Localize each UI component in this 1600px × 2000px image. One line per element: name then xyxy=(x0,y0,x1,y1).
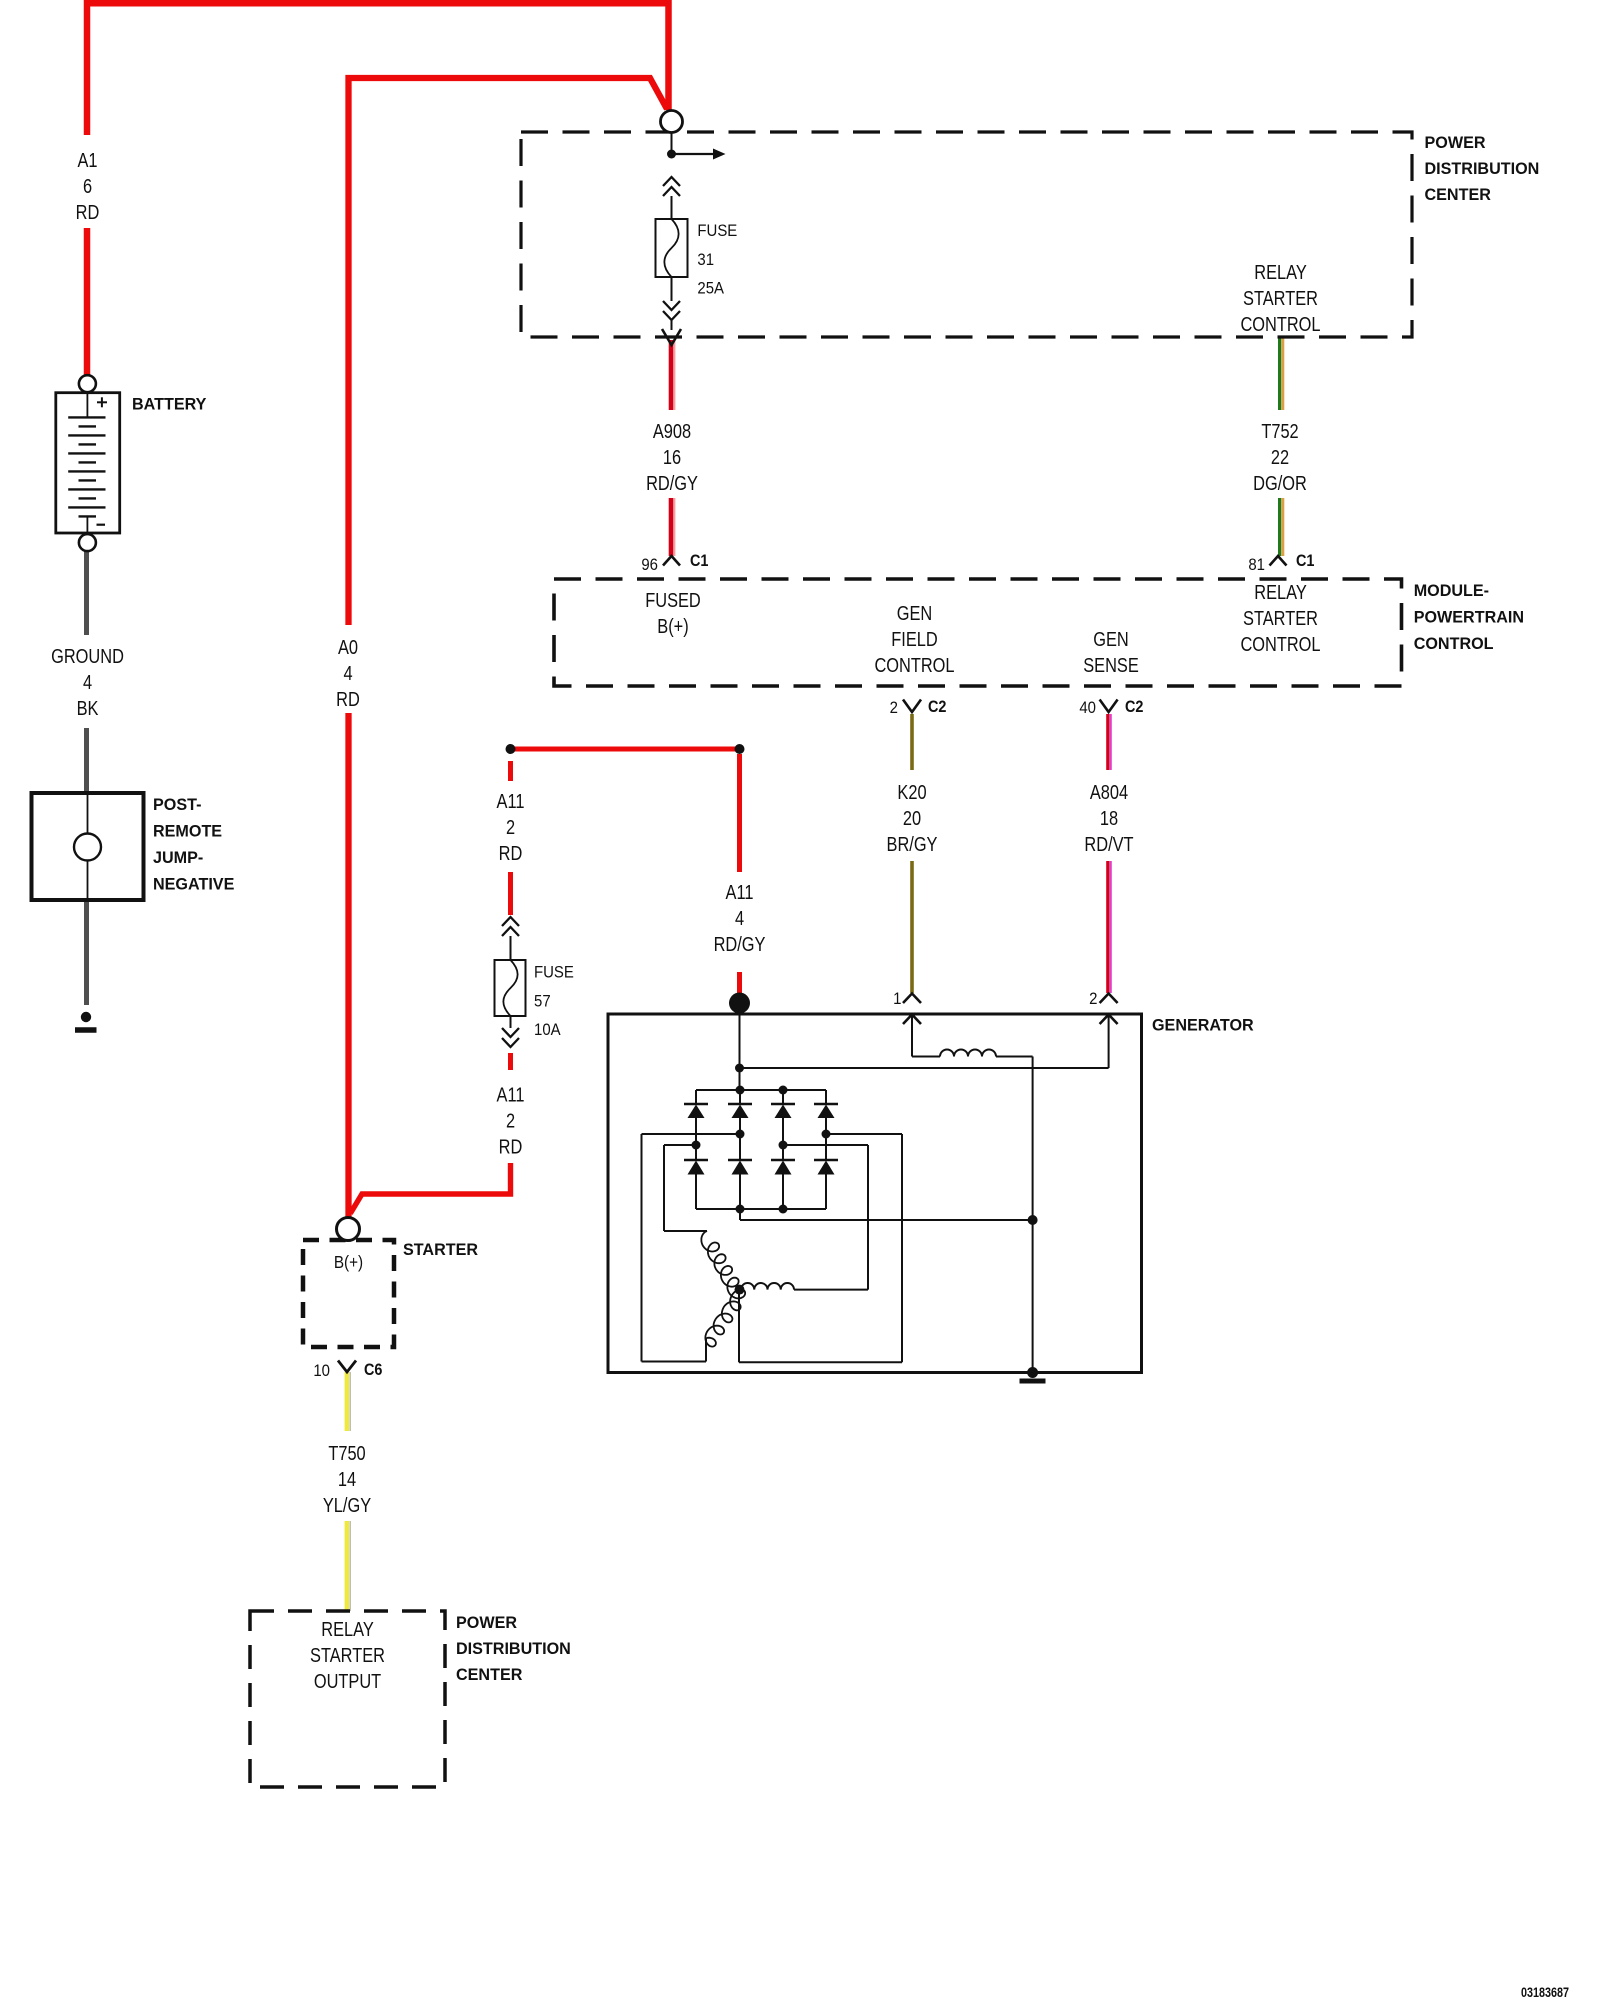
svg-text:2: 2 xyxy=(1089,990,1097,1008)
svg-text:GENERATOR: GENERATOR xyxy=(1152,1015,1254,1034)
svg-text:POWERTRAIN: POWERTRAIN xyxy=(1414,607,1524,626)
svg-text:DISTRIBUTION: DISTRIBUTION xyxy=(1425,159,1540,178)
svg-text:FIELD: FIELD xyxy=(891,627,937,650)
svg-text:RELAY: RELAY xyxy=(1254,580,1307,603)
svg-text:SENSE: SENSE xyxy=(1083,653,1139,676)
svg-text:A11: A11 xyxy=(726,880,754,903)
svg-text:57: 57 xyxy=(534,993,551,1011)
svg-text:RD: RD xyxy=(499,1135,523,1158)
svg-text:GEN: GEN xyxy=(897,601,933,624)
svg-text:DISTRIBUTION: DISTRIBUTION xyxy=(456,1639,571,1658)
svg-text:GROUND: GROUND xyxy=(51,644,124,667)
svg-text:03183687: 03183687 xyxy=(1521,1985,1569,2000)
svg-text:RD/VT: RD/VT xyxy=(1084,832,1133,855)
svg-text:MODULE-: MODULE- xyxy=(1414,581,1489,600)
svg-text:6: 6 xyxy=(83,174,92,197)
svg-text:31: 31 xyxy=(697,251,714,269)
svg-text:C1: C1 xyxy=(690,552,709,570)
svg-text:CONTROL: CONTROL xyxy=(1240,312,1320,335)
svg-text:RD: RD xyxy=(336,687,360,710)
svg-text:CONTROL: CONTROL xyxy=(874,653,954,676)
svg-text:10: 10 xyxy=(313,1362,330,1380)
svg-text:2: 2 xyxy=(506,815,515,838)
svg-text:POWER: POWER xyxy=(1425,133,1486,152)
svg-text:YL/GY: YL/GY xyxy=(323,1493,371,1516)
svg-text:BATTERY: BATTERY xyxy=(132,394,206,413)
svg-text:C1: C1 xyxy=(1296,552,1315,570)
svg-text:2: 2 xyxy=(506,1109,515,1132)
svg-text:B(+): B(+) xyxy=(334,1252,363,1272)
svg-text:C2: C2 xyxy=(928,698,947,716)
svg-text:STARTER: STARTER xyxy=(1243,286,1318,309)
svg-text:CONTROL: CONTROL xyxy=(1414,634,1494,653)
svg-text:A908: A908 xyxy=(653,419,691,442)
svg-text:4: 4 xyxy=(343,661,352,684)
svg-text:FUSED: FUSED xyxy=(645,588,701,611)
svg-text:RELAY: RELAY xyxy=(321,1617,374,1640)
svg-text:16: 16 xyxy=(663,445,681,468)
svg-text:RD/GY: RD/GY xyxy=(646,471,698,494)
svg-text:20: 20 xyxy=(903,806,921,829)
svg-text:T752: T752 xyxy=(1261,419,1298,442)
svg-text:A1: A1 xyxy=(77,148,97,171)
svg-text:18: 18 xyxy=(1100,806,1118,829)
svg-text:14: 14 xyxy=(338,1467,356,1490)
svg-text:REMOTE: REMOTE xyxy=(153,821,222,840)
svg-text:A0: A0 xyxy=(338,635,358,658)
svg-text:RD: RD xyxy=(76,200,100,223)
svg-text:96: 96 xyxy=(641,556,658,574)
svg-text:A11: A11 xyxy=(497,789,525,812)
svg-text:OUTPUT: OUTPUT xyxy=(314,1669,381,1692)
svg-text:BK: BK xyxy=(77,696,99,719)
svg-text:40: 40 xyxy=(1079,699,1096,717)
svg-text:4: 4 xyxy=(735,906,744,929)
svg-text:STARTER: STARTER xyxy=(1243,606,1318,629)
svg-text:T750: T750 xyxy=(328,1441,365,1464)
svg-text:STARTER: STARTER xyxy=(403,1240,478,1259)
svg-text:RELAY: RELAY xyxy=(1254,260,1307,283)
svg-text:K20: K20 xyxy=(897,780,926,803)
svg-text:A804: A804 xyxy=(1090,780,1128,803)
svg-text:BR/GY: BR/GY xyxy=(887,832,938,855)
svg-text:B(+): B(+) xyxy=(657,614,688,637)
svg-text:FUSE: FUSE xyxy=(534,964,574,982)
svg-text:NEGATIVE: NEGATIVE xyxy=(153,874,234,893)
svg-text:81: 81 xyxy=(1248,556,1265,574)
svg-text:22: 22 xyxy=(1271,445,1289,468)
svg-text:CENTER: CENTER xyxy=(456,1665,522,1684)
svg-text:RD: RD xyxy=(499,841,523,864)
svg-text:DG/OR: DG/OR xyxy=(1253,471,1307,494)
svg-text:1: 1 xyxy=(893,990,901,1008)
svg-text:POWER: POWER xyxy=(456,1613,517,1632)
svg-text:RD/GY: RD/GY xyxy=(714,932,766,955)
svg-text:C6: C6 xyxy=(364,1361,383,1379)
svg-text:GEN: GEN xyxy=(1093,627,1129,650)
svg-text:10A: 10A xyxy=(534,1021,561,1039)
svg-text:A11: A11 xyxy=(497,1083,525,1106)
svg-text:CENTER: CENTER xyxy=(1425,185,1491,204)
svg-text:4: 4 xyxy=(83,670,92,693)
svg-text:STARTER: STARTER xyxy=(310,1643,385,1666)
svg-text:25A: 25A xyxy=(697,280,724,298)
svg-text:2: 2 xyxy=(890,699,898,717)
svg-text:POST-: POST- xyxy=(153,795,201,814)
svg-text:JUMP-: JUMP- xyxy=(153,848,203,867)
svg-text:C2: C2 xyxy=(1125,698,1144,716)
svg-text:CONTROL: CONTROL xyxy=(1240,632,1320,655)
svg-text:FUSE: FUSE xyxy=(697,222,737,240)
